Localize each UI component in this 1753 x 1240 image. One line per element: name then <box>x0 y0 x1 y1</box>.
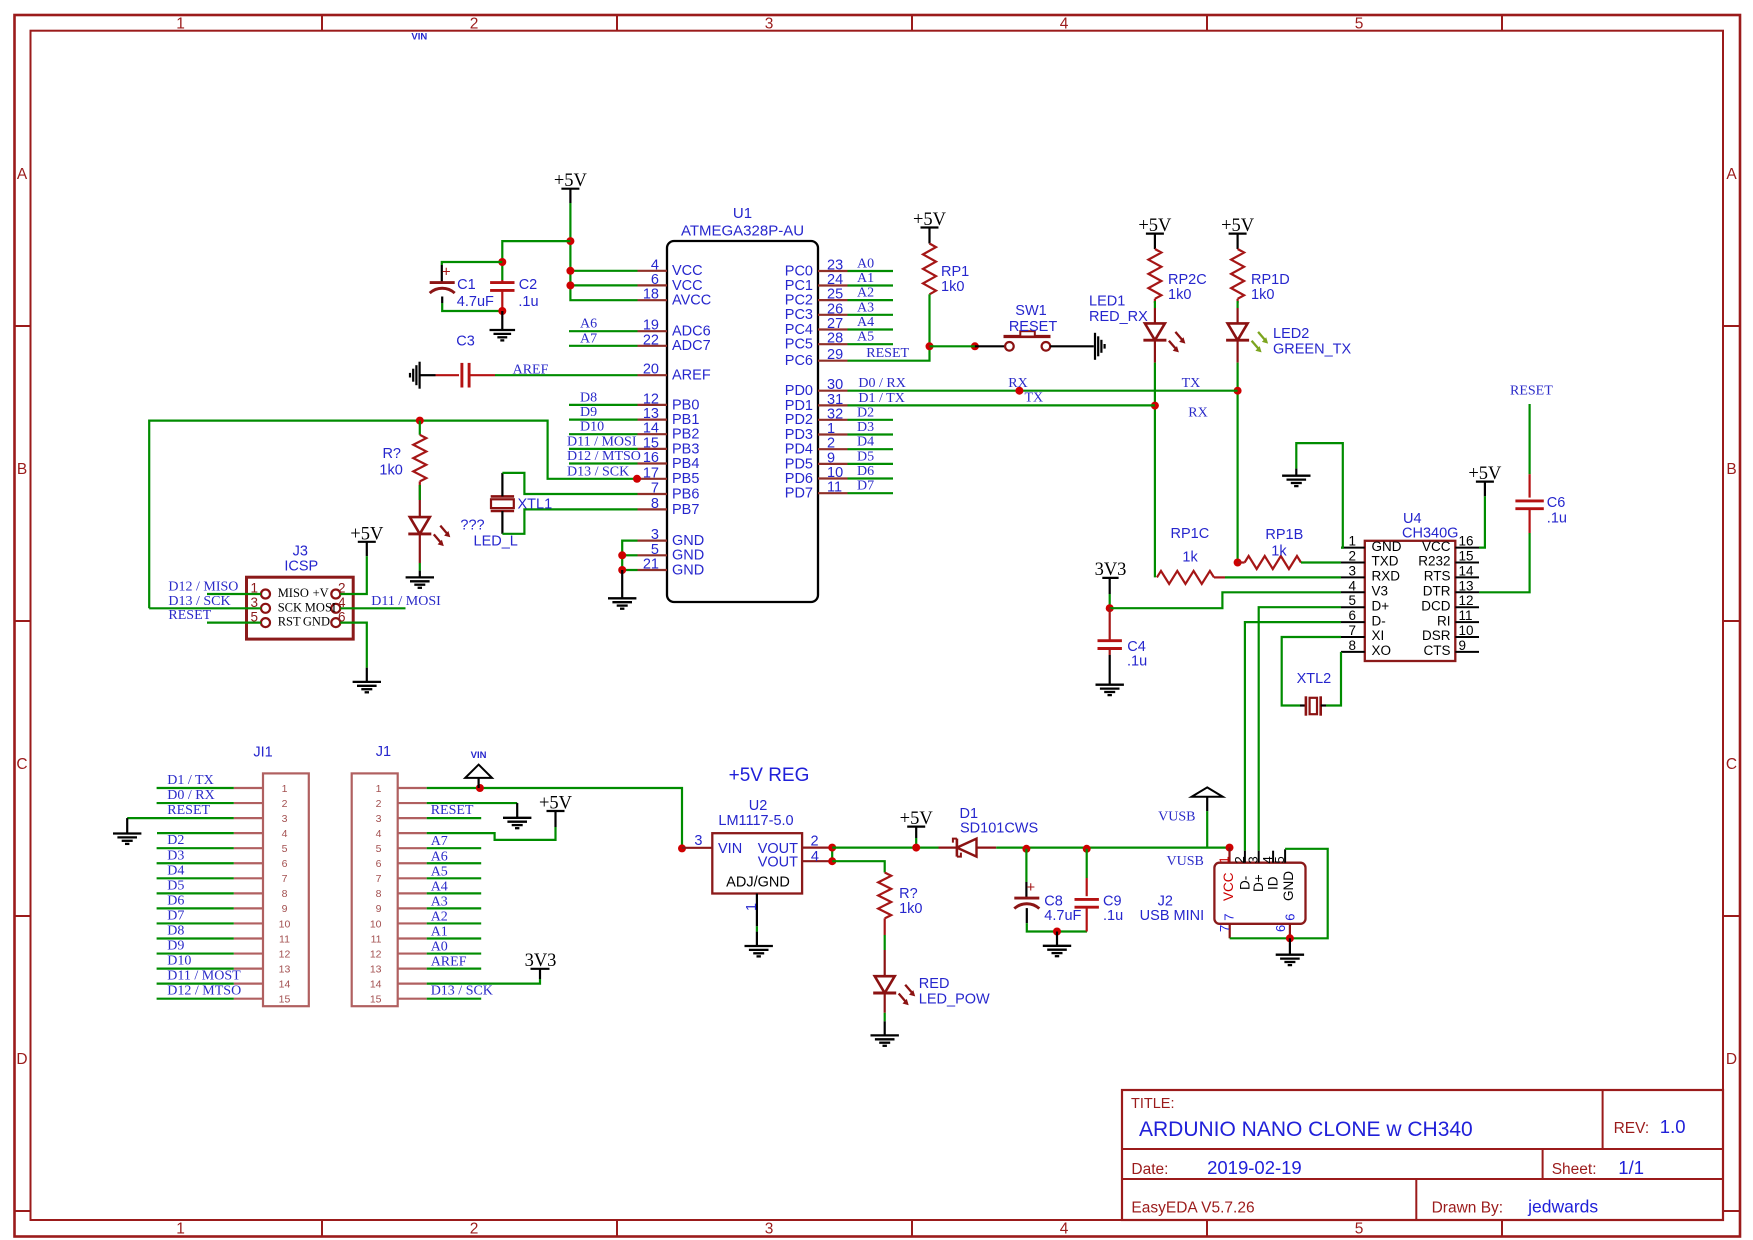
svg-text:GND: GND <box>1281 871 1296 901</box>
svg-text:6: 6 <box>1283 914 1298 921</box>
svg-text:VCC: VCC <box>1422 539 1451 554</box>
svg-text:D+: D+ <box>1251 874 1266 892</box>
svg-text:20: 20 <box>643 362 659 378</box>
svg-text:PB0: PB0 <box>672 397 699 413</box>
svg-text:+: + <box>1026 879 1035 896</box>
svg-text:12: 12 <box>370 948 382 960</box>
svg-text:A2: A2 <box>431 909 448 924</box>
svg-text:D0 / RX: D0 / RX <box>167 788 214 803</box>
svg-text:9: 9 <box>376 903 382 915</box>
svg-text:PB1: PB1 <box>672 412 699 428</box>
svg-text:PB4: PB4 <box>672 456 699 472</box>
svg-text:6: 6 <box>1273 925 1288 932</box>
svg-text:D13 / SCK: D13 / SCK <box>431 984 493 999</box>
svg-text:D2: D2 <box>857 405 874 420</box>
svg-text:7: 7 <box>1222 914 1237 921</box>
svg-text:D12 / MISO: D12 / MISO <box>168 580 238 595</box>
svg-text:A6: A6 <box>580 317 597 332</box>
svg-text:16: 16 <box>643 450 659 466</box>
svg-text:D1 / TX: D1 / TX <box>167 773 213 788</box>
svg-text:RP2C: RP2C <box>1168 272 1207 288</box>
svg-text:XTL1: XTL1 <box>518 497 553 513</box>
svg-text:RED: RED <box>919 976 950 992</box>
svg-text:EasyEDA V5.7.26: EasyEDA V5.7.26 <box>1131 1200 1254 1217</box>
svg-text:XO: XO <box>1372 643 1392 658</box>
svg-text:10: 10 <box>1459 623 1474 638</box>
svg-text:D8: D8 <box>167 924 184 939</box>
svg-text:ARDUNIO NANO CLONE w CH340: ARDUNIO NANO CLONE w CH340 <box>1139 1118 1473 1141</box>
svg-text:7: 7 <box>282 873 288 885</box>
svg-text:LED_L: LED_L <box>474 534 518 550</box>
svg-text:REV:: REV: <box>1614 1120 1650 1137</box>
svg-text:27: 27 <box>827 316 843 332</box>
svg-text:5: 5 <box>1355 15 1364 32</box>
svg-text:A4: A4 <box>431 879 448 894</box>
svg-text:1: 1 <box>744 903 760 911</box>
svg-text:LED1: LED1 <box>1089 294 1125 310</box>
svg-text:RP1D: RP1D <box>1251 272 1290 288</box>
svg-text:3: 3 <box>1246 856 1261 863</box>
svg-text:A5: A5 <box>857 330 874 345</box>
svg-text:21: 21 <box>643 557 659 573</box>
svg-text:C6: C6 <box>1547 495 1566 511</box>
svg-text:D0 / RX: D0 / RX <box>858 376 905 391</box>
svg-text:ID: ID <box>1266 876 1281 890</box>
svg-text:+: + <box>442 264 451 281</box>
svg-text:.1u: .1u <box>1103 908 1123 924</box>
svg-text:C2: C2 <box>519 277 538 293</box>
svg-text:.1u: .1u <box>518 294 538 310</box>
svg-text:D11 / MOSI: D11 / MOSI <box>371 594 441 609</box>
svg-text:2: 2 <box>1348 549 1356 564</box>
svg-text:D11 / MOSI: D11 / MOSI <box>567 434 637 449</box>
svg-text:PB3: PB3 <box>672 441 699 457</box>
svg-text:PB2: PB2 <box>672 427 699 443</box>
svg-text:XI: XI <box>1372 628 1385 643</box>
svg-text:MISO: MISO <box>278 586 309 600</box>
svg-text:RESET: RESET <box>168 608 211 623</box>
svg-text:JI1: JI1 <box>253 745 272 761</box>
svg-text:A7: A7 <box>431 834 448 849</box>
svg-text:1k0: 1k0 <box>1251 287 1274 303</box>
svg-text:2: 2 <box>376 798 382 810</box>
svg-text:17: 17 <box>643 465 659 481</box>
svg-text:D: D <box>1726 1051 1737 1068</box>
svg-text:25: 25 <box>827 287 843 303</box>
svg-text:VOUT: VOUT <box>758 854 798 870</box>
svg-text:D5: D5 <box>167 878 184 893</box>
svg-text:5: 5 <box>282 843 288 855</box>
svg-text:VCC: VCC <box>672 278 703 294</box>
svg-text:VCC: VCC <box>1221 872 1236 901</box>
svg-text:PD6: PD6 <box>785 471 813 487</box>
svg-text:5: 5 <box>376 843 382 855</box>
svg-text:VIN: VIN <box>718 841 742 857</box>
svg-text:RX: RX <box>1188 406 1207 421</box>
svg-text:18: 18 <box>643 287 659 303</box>
svg-text:28: 28 <box>827 331 843 347</box>
svg-text:C3: C3 <box>456 334 475 350</box>
svg-text:TX: TX <box>1182 376 1201 391</box>
svg-text:RP1B: RP1B <box>1265 527 1303 543</box>
svg-text:14: 14 <box>643 421 659 437</box>
svg-text:D-: D- <box>1372 613 1386 628</box>
svg-text:4: 4 <box>1348 578 1356 593</box>
svg-text:B: B <box>17 461 27 478</box>
svg-text:12: 12 <box>643 391 659 407</box>
svg-text:PB5: PB5 <box>672 471 699 487</box>
svg-text:4: 4 <box>811 849 819 865</box>
svg-text:D11 / MOST: D11 / MOST <box>167 969 241 984</box>
svg-text:CTS: CTS <box>1424 643 1451 658</box>
svg-text:1: 1 <box>176 15 185 32</box>
svg-text:3: 3 <box>694 833 702 849</box>
svg-text:A3: A3 <box>857 300 874 315</box>
svg-text:DSR: DSR <box>1422 628 1451 643</box>
svg-text:R?: R? <box>382 446 401 462</box>
svg-text:32: 32 <box>827 406 843 422</box>
svg-text:D9: D9 <box>580 405 597 420</box>
svg-text:14: 14 <box>279 978 291 990</box>
svg-text:A6: A6 <box>431 849 448 864</box>
svg-text:5: 5 <box>1348 593 1356 608</box>
svg-text:ADC7: ADC7 <box>672 338 711 354</box>
svg-text:11: 11 <box>827 480 842 496</box>
svg-text:2: 2 <box>282 798 288 810</box>
svg-text:RX: RX <box>1008 376 1027 391</box>
svg-text:3: 3 <box>765 1221 774 1238</box>
svg-text:9: 9 <box>1459 638 1467 653</box>
svg-text:14: 14 <box>370 978 382 990</box>
svg-text:VUSB: VUSB <box>1158 810 1195 825</box>
svg-text:U2: U2 <box>749 798 768 814</box>
svg-text:LED2: LED2 <box>1273 326 1309 342</box>
svg-text:D: D <box>16 1051 27 1068</box>
svg-text:14: 14 <box>1459 563 1475 578</box>
svg-text:4: 4 <box>651 257 659 273</box>
svg-text:1: 1 <box>282 783 288 795</box>
svg-text:A0: A0 <box>431 940 448 955</box>
svg-text:10: 10 <box>827 465 843 481</box>
svg-text:1k0: 1k0 <box>941 279 964 295</box>
svg-text:15: 15 <box>370 994 382 1006</box>
svg-text:7: 7 <box>1348 623 1356 638</box>
svg-text:30: 30 <box>827 377 843 393</box>
svg-text:3: 3 <box>651 527 659 543</box>
svg-text:GND: GND <box>303 615 330 629</box>
svg-text:D-: D- <box>1237 876 1252 890</box>
svg-text:+5V REG: +5V REG <box>729 765 810 786</box>
svg-text:1/1: 1/1 <box>1618 1157 1644 1178</box>
svg-text:jedwards: jedwards <box>1527 1197 1598 1217</box>
svg-text:ADJ/GND: ADJ/GND <box>726 875 790 891</box>
svg-text:1: 1 <box>1216 856 1231 863</box>
svg-text:PD0: PD0 <box>785 383 813 399</box>
svg-text:15: 15 <box>643 435 659 451</box>
svg-text:GREEN_TX: GREEN_TX <box>1273 342 1351 358</box>
svg-text:1: 1 <box>827 421 835 437</box>
svg-text:VUSB: VUSB <box>1167 854 1204 869</box>
svg-text:B: B <box>1726 461 1736 478</box>
svg-text:15: 15 <box>279 994 291 1006</box>
svg-text:2: 2 <box>470 15 479 32</box>
svg-text:GND: GND <box>672 562 704 578</box>
svg-text:A1: A1 <box>857 271 874 286</box>
svg-text:4.7uF: 4.7uF <box>457 294 494 310</box>
svg-text:PD5: PD5 <box>785 456 813 472</box>
svg-text:ICSP: ICSP <box>284 558 318 574</box>
svg-text:1k0: 1k0 <box>379 463 402 479</box>
svg-text:???: ??? <box>460 518 484 534</box>
svg-text:PD7: PD7 <box>785 486 813 502</box>
svg-text:2019-02-19: 2019-02-19 <box>1207 1157 1302 1178</box>
svg-text:15: 15 <box>1459 549 1474 564</box>
svg-text:RI: RI <box>1437 613 1451 628</box>
svg-text:V3: V3 <box>1372 584 1389 599</box>
svg-text:VIN: VIN <box>471 750 487 761</box>
svg-text:C: C <box>1726 756 1737 773</box>
svg-text:4: 4 <box>282 828 288 840</box>
svg-text:3: 3 <box>765 15 774 32</box>
svg-text:1k0: 1k0 <box>899 901 922 917</box>
svg-text:22: 22 <box>643 332 659 348</box>
svg-text:PD4: PD4 <box>785 442 813 458</box>
svg-text:PD2: PD2 <box>785 412 813 428</box>
svg-text:D+: D+ <box>1372 598 1390 613</box>
svg-text:PC5: PC5 <box>785 337 813 353</box>
svg-text:10: 10 <box>279 918 291 930</box>
svg-text:D12 / MTSO: D12 / MTSO <box>567 449 641 464</box>
svg-text:RST: RST <box>278 615 301 629</box>
svg-text:SD101CWS: SD101CWS <box>960 821 1038 837</box>
svg-text:13: 13 <box>279 963 291 975</box>
svg-text:D2: D2 <box>167 833 184 848</box>
svg-text:4: 4 <box>1060 1221 1069 1238</box>
svg-text:19: 19 <box>643 318 659 334</box>
svg-text:1: 1 <box>176 1221 185 1238</box>
svg-text:PC6: PC6 <box>785 353 813 369</box>
svg-text:+V: +V <box>313 586 329 600</box>
svg-text:J1: J1 <box>376 744 391 760</box>
svg-text:D3: D3 <box>857 420 874 435</box>
svg-text:PC4: PC4 <box>785 322 813 338</box>
svg-text:D1 / TX: D1 / TX <box>858 391 904 406</box>
svg-text:13: 13 <box>643 406 659 422</box>
svg-text:13: 13 <box>370 963 382 975</box>
svg-text:A7: A7 <box>580 331 597 346</box>
svg-text:D12 / MTSO: D12 / MTSO <box>167 984 241 999</box>
svg-text:AREF: AREF <box>672 368 711 384</box>
svg-text:VIN: VIN <box>411 32 427 43</box>
svg-text:4.7uF: 4.7uF <box>1044 908 1081 924</box>
svg-text:2: 2 <box>1232 856 1247 863</box>
svg-text:3: 3 <box>282 813 288 825</box>
svg-text:A5: A5 <box>431 864 448 879</box>
svg-text:A: A <box>1726 166 1737 183</box>
svg-text:LED_POW: LED_POW <box>919 992 990 1008</box>
svg-text:VCC: VCC <box>672 263 703 279</box>
svg-text:D3: D3 <box>167 848 184 863</box>
svg-text:D4: D4 <box>167 863 184 878</box>
svg-text:9: 9 <box>282 903 288 915</box>
svg-text:1.0: 1.0 <box>1660 1116 1686 1137</box>
svg-text:7: 7 <box>376 873 382 885</box>
svg-text:RESET: RESET <box>431 803 474 818</box>
svg-text:A: A <box>17 166 28 183</box>
svg-text:3: 3 <box>1348 563 1356 578</box>
svg-text:1k: 1k <box>1271 544 1287 560</box>
svg-text:Drawn By:: Drawn By: <box>1432 1200 1504 1217</box>
svg-text:D4: D4 <box>857 435 874 450</box>
svg-text:ADC6: ADC6 <box>672 324 711 340</box>
svg-text:10: 10 <box>370 918 382 930</box>
svg-text:D7: D7 <box>167 908 184 923</box>
svg-text:12: 12 <box>1459 593 1474 608</box>
svg-text:U1: U1 <box>733 205 752 222</box>
svg-text:D13 / SCK: D13 / SCK <box>567 464 629 479</box>
svg-text:8: 8 <box>651 496 659 512</box>
svg-text:5: 5 <box>1355 1221 1364 1238</box>
svg-text:GND: GND <box>672 548 704 564</box>
svg-text:C: C <box>16 756 27 773</box>
svg-text:RESET: RESET <box>167 803 210 818</box>
svg-text:1: 1 <box>376 783 382 795</box>
svg-text:SCK: SCK <box>278 600 302 614</box>
svg-text:D13 / SCK: D13 / SCK <box>168 594 230 609</box>
svg-text:D6: D6 <box>167 893 184 908</box>
svg-text:TXD: TXD <box>1372 554 1399 569</box>
svg-text:RP1C: RP1C <box>1171 526 1210 542</box>
svg-text:RESET: RESET <box>866 346 909 361</box>
svg-text:D10: D10 <box>580 420 604 435</box>
svg-text:A4: A4 <box>857 315 874 330</box>
svg-text:29: 29 <box>827 347 843 363</box>
svg-text:PC2: PC2 <box>785 293 813 309</box>
svg-text:Sheet:: Sheet: <box>1552 1161 1597 1178</box>
svg-text:DTR: DTR <box>1423 584 1451 599</box>
svg-text:PD3: PD3 <box>785 427 813 443</box>
svg-text:1k: 1k <box>1182 550 1198 566</box>
svg-text:D5: D5 <box>857 449 874 464</box>
svg-text:11: 11 <box>371 933 382 945</box>
svg-text:11: 11 <box>1459 608 1473 623</box>
svg-text:6: 6 <box>282 858 288 870</box>
svg-text:4: 4 <box>1060 15 1069 32</box>
svg-text:8: 8 <box>282 888 288 900</box>
svg-text:6: 6 <box>1348 608 1356 623</box>
svg-text:6: 6 <box>651 272 659 288</box>
svg-text:7: 7 <box>651 481 659 497</box>
svg-text:1: 1 <box>1348 534 1356 549</box>
svg-text:5: 5 <box>651 542 659 558</box>
svg-text:ATMEGA328P-AU: ATMEGA328P-AU <box>681 223 804 240</box>
svg-text:2: 2 <box>810 834 818 850</box>
svg-text:USB MINI: USB MINI <box>1140 908 1204 924</box>
svg-text:2: 2 <box>470 1221 479 1238</box>
svg-text:PC3: PC3 <box>785 307 813 323</box>
svg-text:RP1: RP1 <box>941 264 969 280</box>
svg-text:13: 13 <box>1459 578 1474 593</box>
svg-text:.1u: .1u <box>1127 654 1147 670</box>
svg-text:A3: A3 <box>431 894 448 909</box>
svg-text:Date:: Date: <box>1131 1161 1168 1178</box>
svg-text:.1u: .1u <box>1547 511 1567 527</box>
svg-text:C1: C1 <box>457 277 476 293</box>
svg-text:PB6: PB6 <box>672 486 699 502</box>
svg-text:TX: TX <box>1025 391 1044 406</box>
svg-text:MOSI: MOSI <box>305 600 336 614</box>
svg-text:PC1: PC1 <box>785 278 813 294</box>
svg-text:11: 11 <box>279 933 290 945</box>
svg-text:AREF: AREF <box>431 955 467 970</box>
svg-text:PB7: PB7 <box>672 502 699 518</box>
svg-text:LM1117-5.0: LM1117-5.0 <box>718 813 793 829</box>
svg-text:RESET: RESET <box>1009 319 1057 335</box>
svg-text:1k0: 1k0 <box>1168 287 1191 303</box>
svg-text:A2: A2 <box>857 286 874 301</box>
svg-text:24: 24 <box>827 272 843 288</box>
svg-text:4: 4 <box>376 828 382 840</box>
svg-text:8: 8 <box>1348 638 1356 653</box>
svg-text:3: 3 <box>376 813 382 825</box>
svg-text:GND: GND <box>1372 539 1402 554</box>
svg-text:RXD: RXD <box>1372 569 1401 584</box>
svg-text:A0: A0 <box>857 257 874 272</box>
svg-text:26: 26 <box>827 301 843 317</box>
svg-text:RED_RX: RED_RX <box>1089 309 1148 325</box>
svg-text:D8: D8 <box>580 390 597 405</box>
svg-text:R?: R? <box>899 886 918 902</box>
svg-text:A1: A1 <box>431 925 448 940</box>
svg-text:D9: D9 <box>167 939 184 954</box>
svg-text:AREF: AREF <box>513 362 549 377</box>
svg-text:XTL2: XTL2 <box>1297 671 1332 687</box>
svg-text:DCD: DCD <box>1421 598 1450 613</box>
svg-text:7: 7 <box>1217 925 1232 932</box>
svg-text:16: 16 <box>1459 534 1474 549</box>
svg-text:J3: J3 <box>293 544 308 560</box>
svg-text:8: 8 <box>376 888 382 900</box>
svg-text:12: 12 <box>279 948 291 960</box>
svg-text:D6: D6 <box>857 464 874 479</box>
svg-text:SW1: SW1 <box>1015 303 1046 319</box>
svg-text:RESET: RESET <box>1510 384 1553 399</box>
svg-text:9: 9 <box>827 450 835 466</box>
svg-text:D10: D10 <box>167 954 191 969</box>
svg-text:6: 6 <box>376 858 382 870</box>
svg-text:TITLE:: TITLE: <box>1131 1096 1175 1112</box>
svg-text:RTS: RTS <box>1424 569 1451 584</box>
svg-text:R232: R232 <box>1418 554 1450 569</box>
svg-text:2: 2 <box>827 436 835 452</box>
svg-text:D7: D7 <box>857 479 874 494</box>
svg-text:GND: GND <box>672 533 704 549</box>
svg-text:5: 5 <box>1272 856 1287 863</box>
svg-text:AVCC: AVCC <box>672 293 711 309</box>
